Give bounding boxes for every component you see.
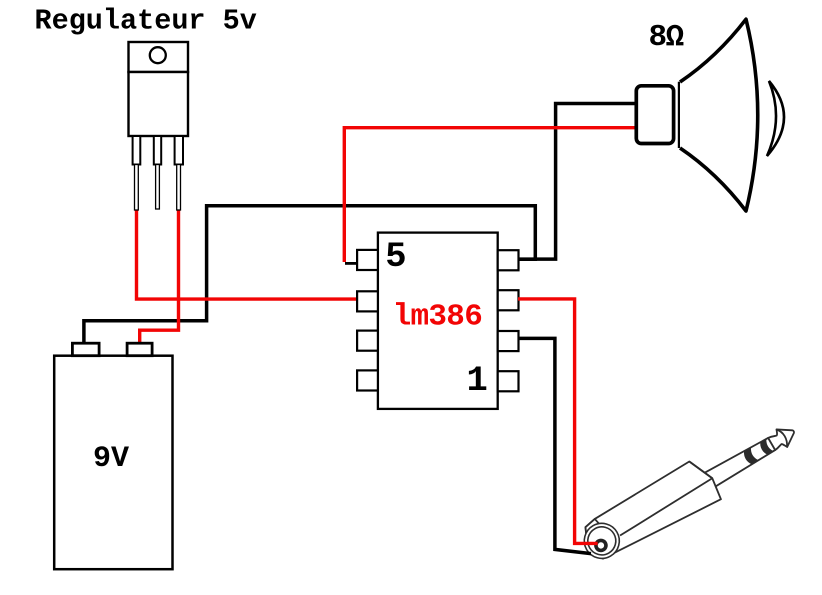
J1 ring band 1: [742, 447, 759, 465]
J1 hex barrel body: [577, 456, 724, 569]
U2 pin right 2: [498, 290, 519, 310]
regulator U1 thin pin 2: [156, 165, 160, 210]
wire black IC pin3-right to jack sleeve: [518, 338, 591, 553]
regulator U1 TO-220 tab: [129, 42, 189, 72]
J1 tip: [767, 422, 799, 453]
J1 barrel mid edge: [618, 478, 714, 535]
battery BT1 positive terminal: [127, 343, 152, 356]
svg-text:9V: 9V: [93, 442, 129, 476]
J1 front face hexagon: [578, 517, 618, 563]
U2 pin right 1: [498, 250, 519, 270]
wire red IC pin2-right to jack tip: [518, 299, 598, 544]
J1 hole: [594, 539, 608, 553]
J1 barrel end edge: [689, 456, 712, 484]
wire black battery-negative to IC pin top-right (ground bus): [84, 206, 535, 345]
regulator U1 wide leg 3: [175, 136, 183, 165]
speaker LS1 cone outline: [680, 19, 758, 211]
op-amp U2 lm386 body: [378, 233, 498, 409]
svg-text:5: 5: [385, 236, 406, 277]
battery BT1 negative terminal: [72, 343, 99, 356]
svg-text:Regulateur 5v: Regulateur 5v: [35, 4, 257, 37]
J1 tip inner cone curve: [776, 428, 790, 448]
svg-text:1: 1: [467, 360, 488, 401]
J1 boss outer circle: [578, 517, 626, 565]
U2 pin left 3: [357, 331, 378, 351]
wire red speaker-positive to IC pin5 area: [344, 128, 637, 262]
wire red regulator left leg to IC pin2-left: [137, 208, 359, 299]
U2 pin left 1 (pin 5 label side): [357, 250, 378, 270]
speaker LS1 sound wave arc: [767, 81, 784, 156]
regulator U1 mounting hole: [150, 47, 166, 63]
regulator U1 wide leg 1: [133, 136, 141, 165]
wire red regulator right leg to battery positive: [140, 208, 179, 345]
wire black speaker-negative down to IC pin top-right: [518, 104, 637, 260]
U2 pin left 2: [357, 291, 378, 311]
wire black stub into IC pin 5 left: [345, 262, 358, 265]
speaker LS1 cone back line: [678, 82, 682, 148]
regulator U1 wide leg 2: [154, 136, 161, 165]
U2 pin right 4: [498, 371, 519, 391]
jack J1 3.5mm stereo plug: [574, 409, 805, 570]
regulator U1 body: [129, 72, 189, 136]
J1 boss inner circle: [583, 522, 621, 560]
regulator U1 thin pin 1: [135, 165, 139, 211]
battery BT1 body: [54, 356, 172, 570]
U2 pin right 3: [498, 331, 519, 351]
svg-text:8Ω: 8Ω: [649, 20, 684, 55]
J1 ring band 2: [758, 439, 773, 456]
regulator U1 thin pin 3: [177, 165, 181, 211]
speaker LS1 magnet box: [636, 86, 673, 144]
U2 pin left 4: [357, 370, 378, 390]
J1 shaft: [698, 437, 776, 492]
svg-text:lm386: lm386: [393, 300, 483, 335]
